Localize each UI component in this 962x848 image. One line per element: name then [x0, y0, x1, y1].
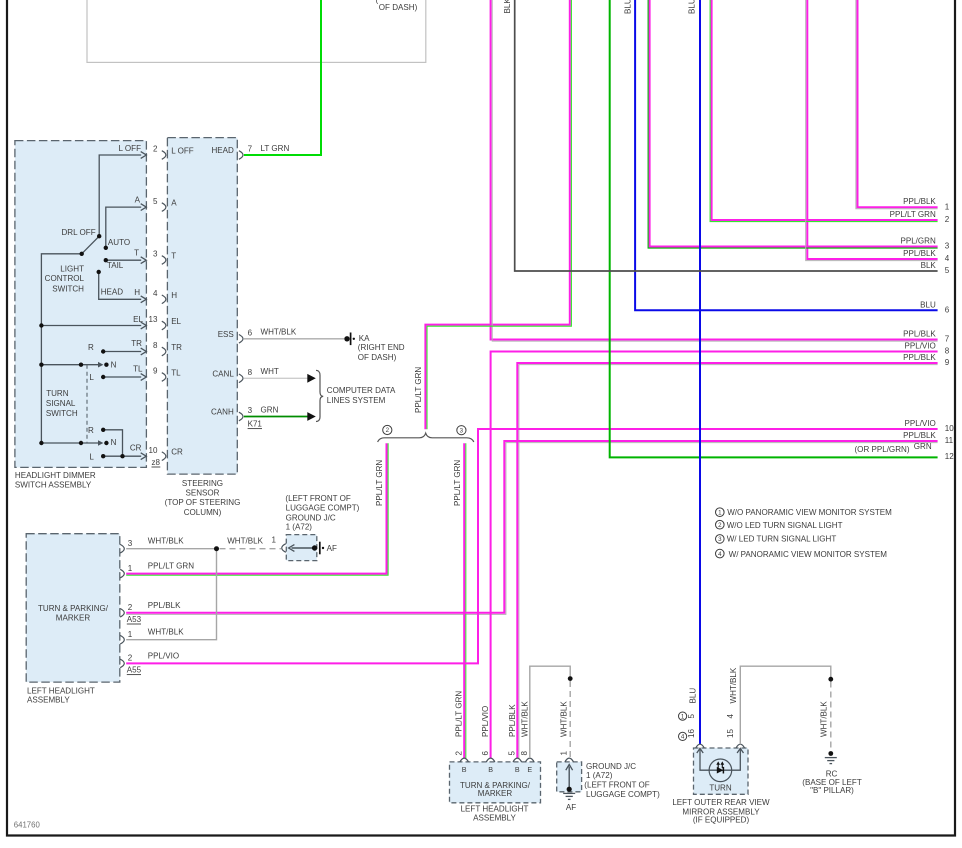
svg-text:(TOP OF STEERING: (TOP OF STEERING — [165, 498, 241, 507]
svg-text:H: H — [171, 291, 177, 300]
svg-text:DRL OFF: DRL OFF — [62, 228, 96, 237]
svg-text:(IF EQUIPPED): (IF EQUIPPED) — [693, 816, 750, 825]
svg-text:AF: AF — [566, 803, 576, 812]
svg-text:CANL: CANL — [212, 369, 234, 378]
svg-text:WHT/BLK: WHT/BLK — [520, 701, 529, 737]
svg-text:WHT/BLK: WHT/BLK — [148, 628, 184, 637]
svg-text:12: 12 — [945, 452, 954, 461]
svg-text:2: 2 — [128, 654, 133, 663]
svg-text:ASSEMBLY: ASSEMBLY — [27, 696, 70, 705]
svg-text:LEFT HEADLIGHT: LEFT HEADLIGHT — [27, 686, 95, 695]
svg-text:OF DASH): OF DASH) — [358, 353, 397, 362]
svg-text:10: 10 — [149, 446, 158, 455]
svg-text:"B" PILLAR): "B" PILLAR) — [810, 786, 854, 795]
svg-text:PPL/BLK: PPL/BLK — [508, 704, 517, 737]
svg-text:E: E — [527, 765, 532, 774]
svg-text:1 (A72): 1 (A72) — [286, 523, 313, 532]
svg-text:PPL/BLK: PPL/BLK — [903, 197, 936, 206]
svg-text:AUTO: AUTO — [108, 238, 130, 247]
svg-text:PPL/VIO: PPL/VIO — [481, 706, 490, 737]
svg-text:8: 8 — [248, 368, 253, 377]
svg-text:H: H — [134, 288, 140, 297]
svg-text:L OFF: L OFF — [171, 147, 194, 156]
svg-text:GRN: GRN — [261, 405, 279, 414]
svg-text:PPL/LT GRN: PPL/LT GRN — [414, 367, 423, 413]
svg-text:1: 1 — [128, 630, 133, 639]
svg-text:AF: AF — [327, 544, 337, 553]
svg-text:ASSEMBLY: ASSEMBLY — [473, 814, 516, 823]
svg-text:K71: K71 — [248, 420, 263, 429]
svg-text:HEAD: HEAD — [211, 146, 234, 155]
svg-text:T: T — [171, 252, 176, 261]
svg-text:MARKER: MARKER — [56, 613, 91, 622]
svg-text:4: 4 — [681, 734, 685, 741]
svg-text:B: B — [488, 765, 493, 774]
svg-text:T: T — [134, 249, 139, 258]
svg-text:(LEFT FRONT OF: (LEFT FRONT OF — [285, 494, 351, 503]
svg-text:TURN: TURN — [709, 783, 732, 792]
svg-text:LEFT HEADLIGHT: LEFT HEADLIGHT — [461, 805, 529, 814]
svg-text:LT GRN: LT GRN — [261, 144, 290, 153]
svg-text:TAIL: TAIL — [107, 261, 124, 270]
svg-text:1: 1 — [272, 536, 277, 545]
svg-text:TR: TR — [131, 339, 142, 348]
svg-text:641760: 641760 — [14, 821, 41, 830]
svg-text:5: 5 — [945, 266, 950, 275]
svg-text:HEADLIGHT DIMMER: HEADLIGHT DIMMER — [15, 471, 96, 480]
svg-text:KA: KA — [359, 334, 370, 343]
svg-text:PPL/LT GRN: PPL/LT GRN — [453, 460, 462, 506]
svg-text:2: 2 — [455, 751, 464, 756]
svg-text:3: 3 — [460, 427, 464, 434]
svg-text:GRN: GRN — [914, 442, 932, 451]
svg-text:LUGGAGE COMPT): LUGGAGE COMPT) — [286, 503, 360, 512]
svg-text:10: 10 — [945, 424, 954, 433]
svg-text:13: 13 — [149, 315, 158, 324]
svg-text:5: 5 — [153, 197, 158, 206]
svg-text:W/O PANORAMIC VIEW MONITOR SYS: W/O PANORAMIC VIEW MONITOR SYSTEM — [727, 508, 892, 517]
svg-text:CANH: CANH — [211, 408, 234, 417]
svg-text:15: 15 — [726, 729, 735, 738]
svg-text:W/O LED TURN SIGNAL LIGHT: W/O LED TURN SIGNAL LIGHT — [727, 521, 843, 530]
svg-text:1: 1 — [560, 751, 569, 756]
svg-text:ESS: ESS — [218, 330, 234, 339]
svg-text:EL: EL — [133, 315, 143, 324]
svg-text:PPL/GRN: PPL/GRN — [900, 237, 936, 246]
svg-text:PPL/BLK: PPL/BLK — [903, 353, 936, 362]
svg-text:GROUND J/C: GROUND J/C — [286, 514, 336, 523]
svg-text:7: 7 — [945, 335, 950, 344]
svg-text:PPL/BLK: PPL/BLK — [148, 601, 181, 610]
svg-text:WHT/BLK: WHT/BLK — [148, 537, 184, 546]
svg-text:BLU: BLU — [624, 0, 633, 14]
svg-text:6: 6 — [945, 306, 950, 315]
svg-text:16: 16 — [687, 729, 696, 738]
svg-text:PPL/LT GRN: PPL/LT GRN — [890, 210, 936, 219]
svg-text:L OFF: L OFF — [118, 144, 141, 153]
svg-text:LINES SYSTEM: LINES SYSTEM — [327, 396, 386, 405]
svg-text:TURN & PARKING/: TURN & PARKING/ — [38, 604, 109, 613]
svg-text:2: 2 — [153, 145, 158, 154]
svg-text:COLUMN): COLUMN) — [184, 508, 222, 517]
svg-text:5: 5 — [687, 714, 696, 719]
svg-text:9: 9 — [945, 358, 950, 367]
svg-text:WHT: WHT — [261, 367, 279, 376]
svg-text:11: 11 — [945, 436, 954, 445]
svg-text:8: 8 — [520, 751, 529, 756]
svg-text:A: A — [171, 199, 177, 208]
svg-text:CONTROL: CONTROL — [45, 274, 85, 283]
svg-text:BLU: BLU — [689, 688, 698, 704]
svg-text:PPL/VIO: PPL/VIO — [904, 342, 935, 351]
svg-text:2: 2 — [128, 603, 133, 612]
svg-text:9: 9 — [153, 367, 158, 376]
svg-text:3: 3 — [153, 250, 158, 259]
svg-text:2: 2 — [718, 522, 722, 529]
svg-text:LIGHT: LIGHT — [60, 265, 84, 274]
svg-text:WHT/BLK: WHT/BLK — [560, 701, 569, 737]
svg-text:SIGNAL: SIGNAL — [46, 399, 76, 408]
svg-text:PPL/LT GRN: PPL/LT GRN — [148, 562, 194, 571]
svg-text:CR: CR — [130, 444, 142, 453]
svg-text:2: 2 — [386, 427, 390, 434]
svg-text:SWITCH ASSEMBLY: SWITCH ASSEMBLY — [15, 481, 92, 490]
svg-text:PPL/BLK: PPL/BLK — [903, 249, 936, 258]
svg-text:SWITCH: SWITCH — [46, 409, 78, 418]
svg-text:WHT/BLK: WHT/BLK — [227, 537, 263, 546]
svg-text:(OR PPL/GRN): (OR PPL/GRN) — [855, 445, 910, 454]
svg-text:OF DASH): OF DASH) — [379, 3, 418, 12]
svg-text:PPL/LT GRN: PPL/LT GRN — [455, 691, 464, 737]
svg-text:EL: EL — [171, 317, 181, 326]
svg-text:8: 8 — [945, 347, 950, 356]
svg-text:5: 5 — [508, 751, 517, 756]
svg-text:R: R — [88, 343, 94, 352]
svg-text:3: 3 — [945, 242, 950, 251]
svg-text:COMPUTER DATA: COMPUTER DATA — [327, 386, 396, 395]
svg-text:(RIGHT END: (RIGHT END — [358, 343, 405, 352]
svg-text:A55: A55 — [127, 665, 142, 674]
svg-text:WHT/BLK: WHT/BLK — [819, 701, 828, 737]
svg-text:PPL/LT GRN: PPL/LT GRN — [375, 460, 384, 506]
svg-text:WHT/BLK: WHT/BLK — [729, 667, 738, 703]
svg-text:1: 1 — [681, 713, 685, 720]
svg-text:3: 3 — [248, 406, 253, 415]
svg-text:3: 3 — [718, 536, 722, 543]
svg-text:8: 8 — [153, 341, 158, 350]
svg-text:4: 4 — [726, 714, 735, 719]
svg-text:MARKER: MARKER — [478, 789, 513, 798]
svg-text:B: B — [515, 765, 520, 774]
svg-text:PPL/VIO: PPL/VIO — [904, 419, 935, 428]
svg-text:6: 6 — [248, 328, 253, 337]
svg-text:4: 4 — [718, 551, 722, 558]
svg-text:HEAD: HEAD — [101, 288, 124, 297]
svg-text:SENSOR: SENSOR — [186, 488, 220, 497]
svg-text:BLU: BLU — [920, 300, 936, 309]
svg-text:TR: TR — [171, 343, 182, 352]
svg-text:CR: CR — [171, 448, 183, 457]
svg-text:1: 1 — [128, 564, 133, 573]
svg-text:4: 4 — [153, 289, 158, 298]
svg-text:R: R — [88, 426, 94, 435]
svg-text:BLK: BLK — [921, 261, 937, 270]
svg-text:7: 7 — [248, 145, 253, 154]
svg-text:PPL/BLK: PPL/BLK — [903, 431, 936, 440]
svg-text:LUGGAGE COMPT): LUGGAGE COMPT) — [586, 790, 660, 799]
svg-text:B: B — [462, 765, 467, 774]
svg-text:LEFT OUTER REAR VIEW: LEFT OUTER REAR VIEW — [672, 798, 770, 807]
svg-text:A: A — [135, 196, 141, 205]
svg-text:BLK: BLK — [503, 0, 512, 14]
svg-text:TURN: TURN — [46, 389, 69, 398]
svg-text:SWITCH: SWITCH — [52, 285, 84, 294]
svg-text:PPL/VIO: PPL/VIO — [148, 651, 179, 660]
svg-text:W/ PANORAMIC VIEW MONITOR SYST: W/ PANORAMIC VIEW MONITOR SYSTEM — [729, 550, 888, 559]
svg-text:4: 4 — [945, 254, 950, 263]
svg-text:(LEFT FRONT OF: (LEFT FRONT OF — [584, 781, 650, 790]
svg-text:STEERING: STEERING — [182, 479, 223, 488]
svg-text:L: L — [89, 452, 94, 461]
svg-text:BLU: BLU — [688, 0, 697, 14]
svg-text:N: N — [111, 361, 117, 370]
svg-text:L: L — [89, 373, 94, 382]
svg-text:2: 2 — [945, 215, 950, 224]
svg-text:6: 6 — [481, 751, 490, 756]
svg-text:1: 1 — [718, 509, 722, 516]
svg-text:WHT/BLK: WHT/BLK — [261, 328, 297, 337]
svg-text:A53: A53 — [127, 615, 142, 624]
svg-text:W/ LED TURN SIGNAL LIGHT: W/ LED TURN SIGNAL LIGHT — [727, 535, 837, 544]
svg-text:TL: TL — [171, 369, 181, 378]
svg-text:z8: z8 — [152, 458, 161, 467]
svg-text:PPL/BLK: PPL/BLK — [903, 330, 936, 339]
svg-text:3: 3 — [128, 539, 133, 548]
svg-text:TL: TL — [133, 365, 143, 374]
svg-text:N: N — [111, 438, 117, 447]
svg-text:GROUND J/C: GROUND J/C — [586, 762, 636, 771]
svg-text:1: 1 — [945, 202, 950, 211]
svg-text:1 (A72): 1 (A72) — [586, 771, 613, 780]
